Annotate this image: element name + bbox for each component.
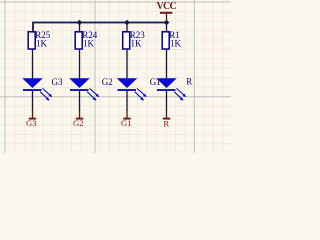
wire LED1 to port bbox=[32, 91, 34, 110]
minor grid bbox=[0, 0, 231, 153]
svg-text:G3: G3 bbox=[52, 77, 63, 87]
wire LED3 to port bbox=[126, 91, 128, 110]
wire rail to R23 bbox=[126, 23, 128, 32]
junction at R1/VCC bbox=[164, 20, 170, 25]
svg-text:1K: 1K bbox=[131, 38, 143, 48]
junction at R23 bbox=[124, 20, 130, 25]
svg-text:G2: G2 bbox=[73, 118, 84, 128]
svg-text:R: R bbox=[163, 118, 169, 128]
resistor R1 bbox=[162, 32, 169, 49]
LED D-G3 bbox=[22, 78, 52, 100]
wire LED2 to port bbox=[79, 91, 81, 110]
resistor R25 bbox=[28, 32, 35, 49]
power port G1 bbox=[121, 109, 132, 128]
wire R25 to LED1 bbox=[32, 49, 34, 78]
svg-text:VCC: VCC bbox=[157, 1, 177, 12]
major grid bbox=[0, 0, 231, 153]
svg-text:G3: G3 bbox=[26, 118, 37, 128]
VCC power rail wire bbox=[33, 23, 167, 31]
svg-text:R: R bbox=[186, 77, 192, 87]
LED D-R bbox=[156, 78, 186, 100]
LED D-G1 bbox=[117, 78, 147, 100]
svg-text:1K: 1K bbox=[170, 38, 182, 48]
wire R24 to LED2 bbox=[79, 49, 81, 78]
wire R23 to LED3 bbox=[126, 49, 128, 78]
svg-text:1K: 1K bbox=[83, 38, 95, 48]
wire rail to R24 bbox=[79, 23, 81, 32]
wire rail to R1 bbox=[166, 23, 168, 32]
power port VCC bbox=[157, 1, 177, 22]
wire R1 to LED4 bbox=[166, 49, 168, 78]
junction at R24 bbox=[77, 20, 83, 25]
power port G2 bbox=[73, 109, 84, 128]
resistor R24 bbox=[75, 32, 82, 49]
resistor R23 bbox=[123, 32, 130, 49]
LED D-G2 bbox=[69, 78, 99, 100]
wire LED4 to port bbox=[166, 91, 168, 110]
svg-text:1K: 1K bbox=[36, 38, 48, 48]
wire rail to R25 bbox=[32, 23, 34, 32]
power port R bbox=[163, 109, 170, 128]
svg-text:G2: G2 bbox=[102, 77, 113, 87]
svg-text:G1: G1 bbox=[121, 118, 132, 128]
power port G3 bbox=[26, 109, 37, 128]
